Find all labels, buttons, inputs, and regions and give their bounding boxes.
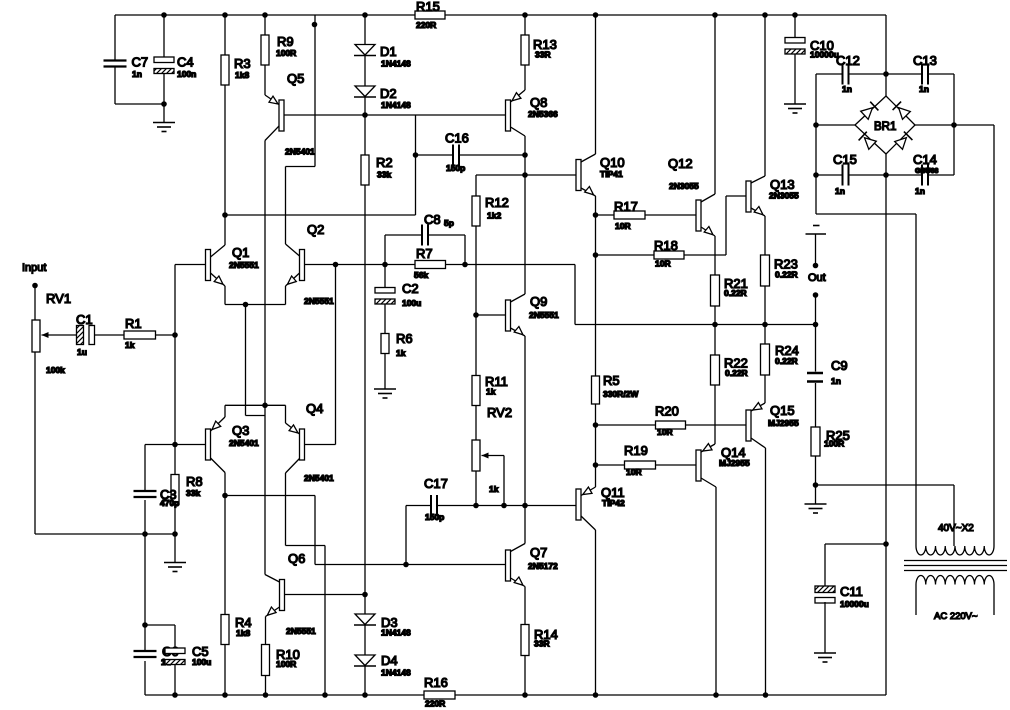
diode D2 [354,56,411,111]
capacitor C14 [886,125,954,196]
wire: negative rail to C11 branch [825,544,886,586]
svg-text:Q9: Q9 [530,294,547,309]
wire: Q8 collector to VAS node [522,136,528,178]
resistor R6 [381,331,413,389]
svg-text:R20: R20 [655,404,679,419]
svg-text:R9: R9 [277,34,294,49]
svg-text:C17: C17 [424,476,448,491]
wire: R2 lead down bias chain [364,185,366,595]
resistor R4 [221,615,252,696]
svg-text:33k: 33k [186,488,200,498]
resistor R25 [811,427,850,488]
svg-text:40V~X2: 40V~X2 [938,523,974,534]
wire: Q5/Q8 base net [365,115,506,155]
svg-text:100R: 100R [824,439,844,449]
capacitor C17 [406,476,576,565]
svg-text:1u: 1u [77,347,87,357]
svg-text:C11: C11 [840,584,863,599]
resistor R3 [221,15,251,215]
svg-text:1n: 1n [919,84,929,94]
svg-text:10R: 10R [626,467,642,477]
svg-text:C7: C7 [132,55,149,70]
capacitor C7 [104,15,149,104]
wire: feedback node column [172,335,178,447]
svg-text:220R: 220R [416,20,436,30]
svg-text:1n: 1n [835,186,845,196]
node: input terminal [32,283,38,320]
ground (under R6) [374,389,396,398]
transistor Q11 [576,465,625,695]
wire: C12 left column [813,74,855,128]
wire: BR1 right AC lead [954,125,994,546]
svg-text:2N5551: 2N5551 [529,310,559,320]
resistor R5 [592,373,640,428]
svg-text:RV1: RV1 [46,291,71,306]
capacitor C13 [886,53,954,94]
svg-text:2N5401: 2N5401 [229,438,259,448]
transistor Q8 [506,90,559,136]
diode D3 [354,595,411,638]
svg-text:D1: D1 [380,44,397,59]
svg-text:Q5: Q5 [287,71,304,86]
ground (under R25) [805,504,827,513]
svg-text:Q6: Q6 [288,551,305,566]
svg-text:1k: 1k [489,484,499,494]
svg-text:1N4148: 1N4148 [381,59,411,69]
svg-text:33R: 33R [534,639,550,649]
wire: C15 row to transformer left [816,175,916,546]
diode D1 [354,15,411,69]
wire: Q4 collector down to Q6/Q7 net [286,473,326,565]
wire: transformer secondary centre tap [816,485,955,546]
wire: rail corner to bridge [883,15,889,96]
svg-text:Q15: Q15 [770,403,795,418]
wire: bottom negative rail [145,692,886,698]
wire: VAS output node to Q10 base [476,175,576,196]
resistor R12 [472,195,509,315]
resistor R10 [262,645,300,696]
svg-text:330R/2W: 330R/2W [603,389,639,399]
svg-text:R19: R19 [624,443,648,458]
resistor R20 [596,404,686,438]
wire: RV1 bottom to ground rail [35,352,178,537]
svg-text:Q3: Q3 [232,423,249,438]
capacitor C10 [785,15,839,104]
transistor Q1 [175,215,259,305]
svg-text:0.22R: 0.22R [724,288,747,298]
resistor R16 [424,675,455,709]
svg-text:AC 220V~: AC 220V~ [934,611,978,622]
svg-text:2N5401: 2N5401 [285,147,315,157]
svg-text:2N5366: 2N5366 [528,109,558,119]
wire: rail to Q2 collector (jog) [286,15,318,244]
svg-text:2N5551: 2N5551 [229,260,259,270]
svg-text:100u: 100u [402,298,421,308]
capacitor C8 [385,212,465,265]
svg-text:1n: 1n [831,376,841,386]
ground (under C11) [814,653,836,662]
svg-text:D2: D2 [380,86,397,101]
capacitor C6 [134,644,179,695]
wire: R25 ground stub [815,485,817,504]
svg-text:Q1: Q1 [232,245,249,260]
svg-text:R16: R16 [424,675,448,690]
capacitor C5 [145,625,211,695]
svg-text:33R: 33R [535,50,551,60]
capacitor C16 [413,131,528,174]
wire: R8 ground stub [174,534,176,563]
svg-text:470p: 470p [160,498,179,508]
svg-text:1n: 1n [132,69,142,79]
wire: feedback to output rail [465,265,818,328]
svg-text:RV2: RV2 [487,405,512,420]
svg-text:D4: D4 [381,653,398,668]
node: output terminal symbol [806,226,827,269]
svg-text:2N5401: 2N5401 [304,473,334,483]
svg-text:1k: 1k [486,387,496,397]
svg-text:1k: 1k [396,348,406,358]
svg-text:10R: 10R [657,427,673,437]
svg-text:Q12: Q12 [668,156,693,171]
svg-text:Q4: Q4 [306,401,323,416]
ground (under C4) [153,123,175,132]
wire: top positive rail [115,12,886,18]
bridge rectifier BR1 [855,96,915,154]
resistor R13 [521,15,557,90]
svg-text:100R: 100R [276,48,296,58]
svg-text:R15: R15 [416,0,440,14]
svg-text:R3: R3 [234,56,251,71]
wire: Out node to output rail [813,292,819,324]
svg-text:100k: 100k [46,365,65,375]
resistor R8 [171,445,203,535]
svg-text:1N4148: 1N4148 [381,668,411,678]
svg-text:1k8: 1k8 [235,70,249,80]
resistor R9 [261,15,296,65]
svg-text:2N5551: 2N5551 [286,626,316,636]
svg-text:1k2: 1k2 [487,211,501,221]
ground (under R8) [164,563,186,572]
wire: feedback net to R7/C8 [336,262,416,268]
svg-text:Out: Out [808,272,826,284]
svg-text:C16: C16 [445,131,469,146]
transistor Q12 [668,15,715,236]
capacitor C15 [813,125,886,196]
capacitor C1 [76,312,124,357]
transistor Q4 [286,401,336,483]
resistor R14 [521,625,558,696]
svg-text:0.22R: 0.22R [775,270,798,280]
svg-text:C8: C8 [424,212,441,227]
wire: C13 right column [915,74,957,128]
potentiometer RV1 [32,291,76,375]
svg-text:R8: R8 [186,474,203,489]
resistor R2 [361,115,393,185]
transistor Q15 [686,403,799,448]
svg-text:1N4148: 1N4148 [381,628,411,638]
wire: Q9 collector column [511,175,526,302]
svg-text:R1: R1 [125,316,142,331]
transistor Q14 [656,444,750,487]
svg-text:220R: 220R [425,699,445,709]
svg-text:C1: C1 [76,312,93,327]
resistor R17 [596,199,697,231]
svg-text:C2: C2 [402,281,419,296]
svg-text:C4: C4 [177,55,194,70]
svg-text:R2: R2 [376,155,393,170]
svg-text:1k: 1k [125,340,135,350]
wire: ground rail taps [142,534,148,652]
svg-text:0.22R: 0.22R [775,356,798,366]
potentiometer RV2 [472,405,512,506]
svg-text:Q8: Q8 [530,95,547,110]
svg-text:10000u: 10000u [840,599,869,609]
svg-text:2N3055: 2N3055 [669,181,699,191]
transistor Q13 [746,15,799,216]
svg-text:Input: Input [22,262,46,274]
svg-text:1k8: 1k8 [236,628,250,638]
capacitor C4 [154,15,196,104]
resistor R1 [124,316,178,350]
wire: Q2 base to Q4 base (feedback column) [333,262,339,445]
svg-text:1n: 1n [915,186,925,196]
resistor R24 [761,325,799,404]
capacitor C3 [134,445,206,535]
wire: Q3 collector node [222,493,315,615]
svg-text:100u: 100u [192,657,211,667]
transistor Q5 [265,65,365,157]
transistor Q9 [473,294,559,336]
label: 40V~X2 secondary [938,523,974,534]
svg-text:C15: C15 [833,152,857,167]
svg-text:R5: R5 [603,373,620,388]
wire: current source to Q3/Q4 emitters [225,141,286,575]
resistor R22 [711,325,748,445]
capacitor C11 [815,584,869,653]
svg-text:1N4148: 1N4148 [381,100,411,110]
svg-text:Q10: Q10 [600,155,625,170]
svg-text:2N5172: 2N5172 [528,561,558,571]
capacitor C2 [375,265,421,334]
diode D4 [354,625,411,695]
wire: R1 junction to Q1 base [174,265,176,336]
svg-text:0.22R: 0.22R [725,368,748,378]
svg-text:10000u: 10000u [810,50,839,60]
wire: Q1 collector row [222,155,415,218]
resistor R7 [414,246,468,280]
label: AC 220V~ primary [934,611,978,622]
resistor R19 [593,425,656,477]
ground (under C10) [784,104,806,113]
transistor Q7 [506,545,559,625]
transistor Q6 [265,551,368,645]
wire: C7/C4 junction to ground [115,101,167,122]
transistor Q3 [206,405,260,495]
svg-text:C13: C13 [913,53,937,68]
capacitor C12 [816,53,886,94]
svg-text:56k: 56k [414,270,428,280]
svg-text:TIP42: TIP42 [602,498,625,508]
svg-text:100R: 100R [276,659,296,669]
resistor R21 [711,236,748,325]
svg-text:1n: 1n [842,84,852,94]
wire: Q10 emitter column [593,196,599,376]
node: D2 / R2 / Q5 base junction [362,97,368,118]
label: Out [808,272,826,284]
svg-text:R17: R17 [614,199,638,214]
svg-text:TIP41: TIP41 [600,169,623,179]
svg-text:Q7: Q7 [530,545,547,560]
transistor Q2 [286,222,336,306]
resistor R23 [761,216,798,325]
label: Input [22,262,46,274]
transformer T1 [904,546,1007,615]
svg-text:100n: 100n [177,69,196,79]
svg-text:150p: 150p [446,163,465,173]
wire: Q15 collector to rail [765,448,767,695]
wire: Q9 emitter / Q7 collector column [511,336,526,552]
svg-text:2N3055: 2N3055 [769,191,799,201]
svg-text:BR1: BR1 [874,121,896,133]
svg-text:MJ2955: MJ2955 [719,458,750,468]
svg-text:150p: 150p [425,512,444,522]
svg-text:2N5551: 2N5551 [304,296,334,306]
svg-text:10R: 10R [615,221,631,231]
wire: Q14 collector to rail [715,487,717,695]
resistor R11 [472,315,508,440]
svg-text:C14: C14 [913,152,937,167]
svg-text:C9: C9 [831,358,848,373]
resistor R15 [415,0,445,30]
svg-text:10R: 10R [655,259,671,269]
svg-text:Q2: Q2 [307,222,324,237]
svg-text:MJ2955: MJ2955 [768,418,799,428]
svg-text:R18: R18 [654,238,678,253]
svg-text:C12: C12 [836,53,860,68]
svg-text:GBU68: GBU68 [915,168,938,175]
svg-text:R7: R7 [416,246,433,261]
svg-text:5p: 5p [444,218,454,228]
capacitor C9 [807,325,848,428]
svg-text:R6: R6 [396,331,413,346]
resistor R18 [596,196,747,269]
svg-text:33k: 33k [377,170,391,180]
wire: BR1 bottom output column [883,154,889,695]
wire: Q7 base row [315,546,506,696]
wire: Q1/Q2 emitter tail [225,302,286,416]
transistor Q10 [576,15,625,196]
svg-text:R12: R12 [485,195,509,210]
